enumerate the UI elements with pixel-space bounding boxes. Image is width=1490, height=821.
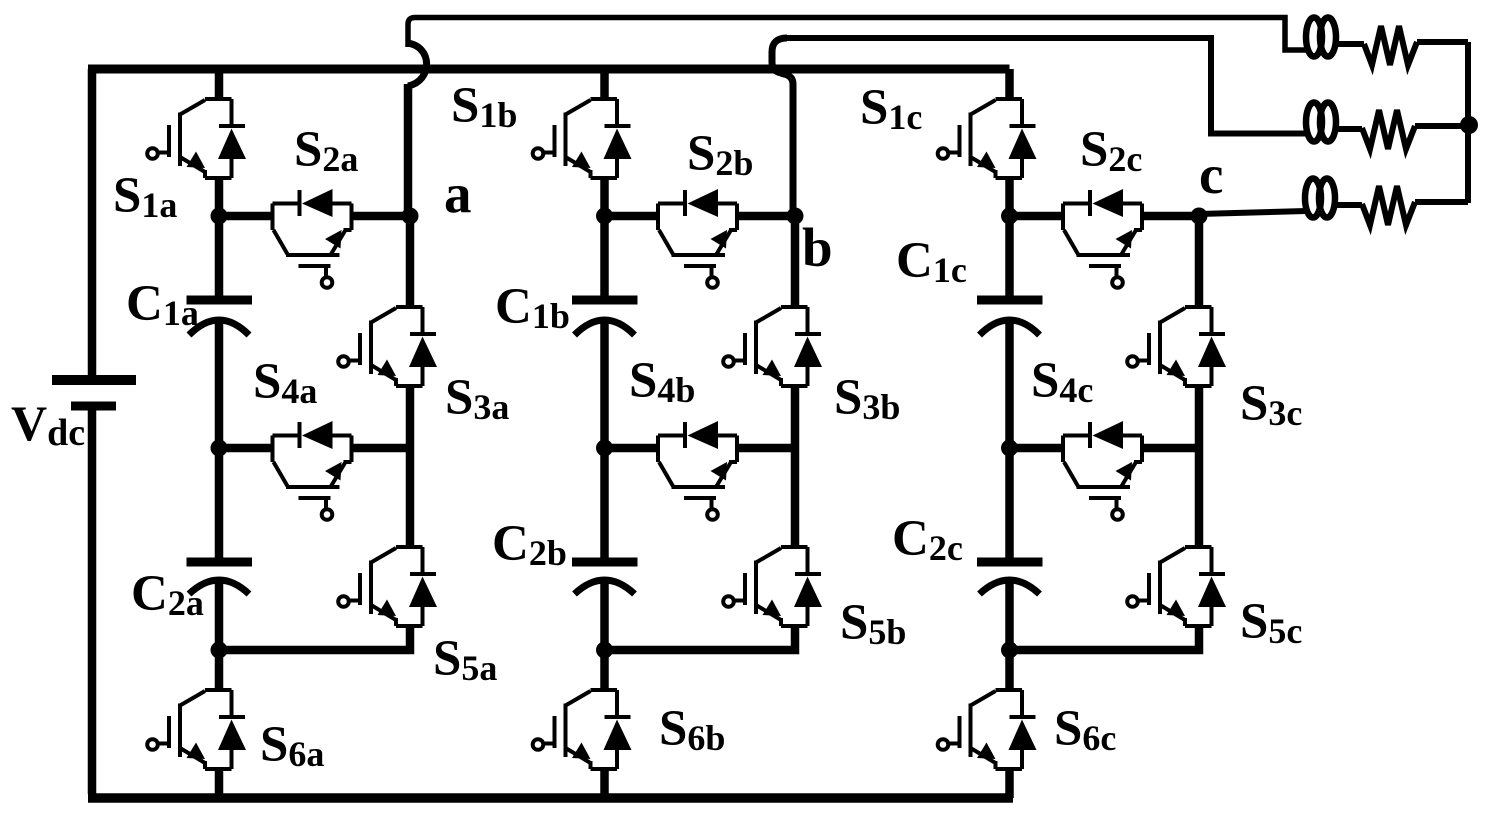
transistor S2c xyxy=(1063,189,1142,288)
capacitor C2b xyxy=(572,562,638,594)
svg-text:S4a: S4a xyxy=(253,354,317,411)
wire C1c bottom lead xyxy=(1005,322,1014,448)
wire node a riser lower xyxy=(404,84,413,216)
svg-text:C2b: C2b xyxy=(492,516,567,573)
svg-text:S2c: S2c xyxy=(1080,122,1142,179)
transistor S1b xyxy=(533,99,632,178)
wire Lc to Rc xyxy=(1333,202,1362,208)
transistor S4b xyxy=(658,421,737,520)
wire Lb to Rb xyxy=(1334,126,1362,132)
transistor S5b xyxy=(723,547,822,626)
node c leg junction xyxy=(1001,208,1018,225)
wire S4c right lead xyxy=(1142,444,1199,453)
wire S6b bottom lead xyxy=(600,769,609,798)
wire S2a left lead xyxy=(219,212,273,221)
node b output xyxy=(787,208,804,225)
wire S1c emitter stem xyxy=(1005,178,1014,216)
transistor S1a xyxy=(147,99,246,178)
wire C2a bottom lead xyxy=(215,581,224,650)
wire S3b top lead xyxy=(791,216,800,307)
svg-text:S1c: S1c xyxy=(860,80,922,137)
wire Rb to right bus xyxy=(1415,123,1468,129)
svg-text:S6b: S6b xyxy=(659,701,725,758)
wire C1b bottom lead xyxy=(600,322,609,448)
wire S6b top lead xyxy=(600,650,609,690)
svg-text:S2a: S2a xyxy=(294,122,358,179)
wire S1b emitter stem xyxy=(600,178,609,216)
wire C2b top lead xyxy=(600,448,609,562)
svg-text:C1a: C1a xyxy=(126,276,199,333)
transistor S6c xyxy=(938,690,1037,769)
wire C1a bottom lead xyxy=(215,322,224,448)
wire S1c collector stem xyxy=(1005,69,1014,99)
svg-text:S5a: S5a xyxy=(433,631,497,688)
transistor S3c xyxy=(1127,307,1226,386)
svg-text:S4c: S4c xyxy=(1031,353,1093,410)
svg-text:C2c: C2c xyxy=(892,511,963,568)
capacitor C1c xyxy=(977,300,1043,335)
wire Rc to right bus xyxy=(1415,199,1468,205)
wire C2a top lead xyxy=(215,448,224,562)
wire node a hop over rail xyxy=(407,43,427,86)
wire C1a top lead xyxy=(215,216,224,300)
wire Ra to right bus xyxy=(1417,39,1468,45)
transistor S5a xyxy=(338,547,437,626)
svg-text:S1a: S1a xyxy=(113,168,177,225)
wire S3c to S5c xyxy=(1195,386,1204,547)
resistor Ra xyxy=(1364,26,1417,65)
svg-text:C2a: C2a xyxy=(131,566,204,623)
wire phase b top xyxy=(786,38,1306,134)
transistor S6a xyxy=(147,690,246,769)
wire S4b right lead xyxy=(737,444,795,453)
wire S3a to S5a xyxy=(406,386,415,547)
node S4a junction xyxy=(211,440,228,457)
capacitor C2c xyxy=(977,562,1043,594)
svg-text:S6a: S6a xyxy=(260,717,324,774)
wire S1b collector stem xyxy=(600,69,609,99)
svg-text:S1b: S1b xyxy=(451,78,517,135)
wire S2a right lead xyxy=(352,212,411,221)
transistor S1c xyxy=(938,99,1037,178)
node C2a bottom xyxy=(211,642,228,659)
svg-text:S2b: S2b xyxy=(687,126,753,183)
wire S3b to S5b xyxy=(791,386,800,547)
wire La to Ra xyxy=(1334,41,1364,47)
wire phase a top xyxy=(408,18,1306,51)
transistor S6b xyxy=(533,690,632,769)
battery Vdc xyxy=(52,380,136,406)
svg-text:S3b: S3b xyxy=(834,370,900,427)
wire C2c bottom lead xyxy=(1005,581,1014,650)
node b leg junction xyxy=(596,208,613,225)
node a output xyxy=(402,208,419,225)
wire S5c emitter to node xyxy=(1010,626,1200,650)
wire C1b top lead xyxy=(600,216,609,300)
wire S4a left lead xyxy=(219,444,273,453)
svg-text:S3a: S3a xyxy=(445,370,509,427)
wire left bus lower xyxy=(88,406,97,794)
wire left bus upper xyxy=(88,69,97,375)
inductor Lc xyxy=(1305,179,1335,218)
transistor S5c xyxy=(1127,547,1226,626)
svg-text:S6c: S6c xyxy=(1054,701,1116,758)
capacitor C2a xyxy=(187,562,253,594)
resistor Rc xyxy=(1362,186,1415,225)
wire S6a top lead xyxy=(215,650,224,690)
wire S6c bottom lead xyxy=(1005,769,1014,798)
wire C2c top lead xyxy=(1005,448,1014,562)
wire S6a bottom lead xyxy=(215,769,224,798)
transistor S2a xyxy=(273,189,352,288)
transistor S4c xyxy=(1063,421,1142,520)
wire S5b emitter to node xyxy=(605,626,796,650)
wire S2b right lead xyxy=(737,212,795,221)
inductor Lb xyxy=(1306,103,1336,142)
wire S4c left lead xyxy=(1010,444,1064,453)
wire phase c to load xyxy=(1199,211,1306,214)
node a leg junction xyxy=(211,208,228,225)
resistor Rb xyxy=(1362,110,1415,149)
wire C2b bottom lead xyxy=(600,581,609,650)
capacitor C1b xyxy=(572,300,638,335)
node C2b bottom xyxy=(596,642,613,659)
transistor S3a xyxy=(338,307,437,386)
svg-text:S3c: S3c xyxy=(1240,376,1302,433)
svg-text:S5b: S5b xyxy=(840,595,906,652)
svg-text:C1c: C1c xyxy=(896,233,967,290)
node c output xyxy=(1191,208,1208,225)
svg-text:a: a xyxy=(444,163,472,224)
svg-text:c: c xyxy=(1199,144,1223,205)
wire node b riser xyxy=(772,38,793,216)
wire S2c left lead xyxy=(1010,212,1064,221)
wire S5a emitter to node xyxy=(219,626,410,650)
wire top DC rail xyxy=(88,65,1010,74)
wire S3a top lead xyxy=(406,216,415,307)
svg-text:S4b: S4b xyxy=(629,353,695,410)
node C2c bottom xyxy=(1001,642,1018,659)
wire load right bus xyxy=(1465,42,1471,203)
transistor S2b xyxy=(658,189,737,288)
wire S4b left lead xyxy=(605,444,659,453)
svg-text:b: b xyxy=(802,217,833,278)
wire S4a right lead xyxy=(352,444,411,453)
wire bottom rail xyxy=(88,793,1013,803)
node S4b junction xyxy=(596,440,613,457)
node load neutral xyxy=(1460,116,1478,134)
svg-text:C1b: C1b xyxy=(495,279,570,336)
transistor S4a xyxy=(273,421,352,520)
capacitor C1a xyxy=(187,300,253,335)
wire S1a collector stem xyxy=(215,69,224,99)
wire S3c top lead xyxy=(1195,216,1204,307)
wire S1a emitter stem xyxy=(215,178,224,216)
wire S2b left lead xyxy=(605,212,659,221)
wire S2c right lead xyxy=(1142,212,1199,221)
transistor S3b xyxy=(723,307,822,386)
inductor La xyxy=(1306,18,1336,57)
wire C1c top lead xyxy=(1005,216,1014,300)
svg-text:S5c: S5c xyxy=(1240,594,1302,651)
node S4c junction xyxy=(1001,440,1018,457)
wire S6c top lead xyxy=(1005,650,1014,690)
